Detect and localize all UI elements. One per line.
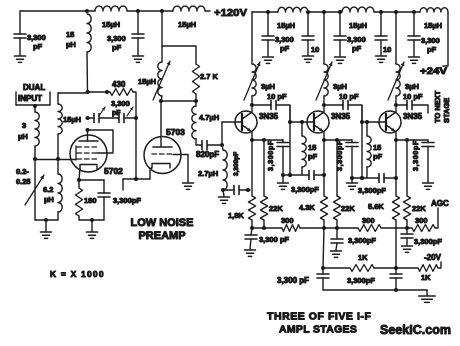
svg-text:820pF: 820pF — [196, 150, 219, 159]
inductor L5 15uH input — [58, 93, 62, 174]
svg-text:300: 300 — [281, 216, 294, 225]
svg-text:3,300: 3,300 — [107, 34, 126, 43]
tube U1 plate loop — [88, 130, 114, 153]
node k-1 — [77, 178, 81, 182]
svg-text:22K: 22K — [269, 204, 283, 213]
resistor R300-1 — [282, 225, 300, 232]
resistor 22K Q1 — [260, 140, 267, 228]
label U2 5703 — [166, 127, 185, 137]
node rail2-D — [338, 10, 342, 14]
svg-text:6.2: 6.2 — [43, 185, 53, 194]
wire emitter row Q2 — [324, 139, 352, 141]
wire row2b — [315, 174, 324, 176]
wire low to -20V — [438, 262, 441, 268]
node g2-2 — [194, 99, 198, 103]
svg-text:15µH: 15µH — [277, 21, 295, 30]
arrow C4 — [127, 107, 133, 116]
svg-text:15: 15 — [308, 143, 316, 152]
label L11 — [424, 21, 442, 30]
svg-text:5.6K: 5.6K — [368, 202, 384, 211]
label R1K-1 — [358, 253, 368, 262]
label +120V — [214, 7, 247, 19]
wire row3 — [352, 177, 379, 179]
wire to base Q3 — [349, 105, 362, 122]
svg-text:10: 10 — [311, 45, 319, 54]
resistor R1K-2 — [418, 265, 438, 272]
svg-text:3,300: 3,300 — [27, 33, 46, 42]
wire bus c — [381, 227, 412, 229]
inductor L3 15uH on rail — [173, 6, 205, 11]
label L9 — [277, 21, 295, 30]
tube U2 grid dashes — [152, 153, 172, 155]
label 15pF Q3 — [373, 143, 383, 161]
svg-text:15µH: 15µH — [102, 20, 120, 29]
label C1 — [27, 33, 46, 51]
node e22 Q2 — [335, 138, 339, 142]
inductor 2.7uH — [222, 145, 227, 190]
label L7 — [138, 77, 156, 86]
label +24V — [420, 66, 447, 76]
svg-text:1K: 1K — [358, 253, 368, 262]
node base Q3 — [360, 120, 364, 124]
wire bus agc — [435, 208, 438, 228]
resistor Re Q2 4.3K — [320, 140, 327, 228]
wire low bottom — [323, 289, 427, 291]
capacitor Cb1 3300pF — [245, 228, 257, 249]
label K=X1000 — [50, 269, 105, 279]
svg-text:3,300pF: 3,300pF — [358, 186, 386, 195]
svg-text:µH: µH — [18, 132, 28, 141]
node bus-5 — [405, 226, 409, 230]
svg-text:DUAL: DUAL — [23, 83, 45, 92]
svg-text:3,300pF: 3,300pF — [268, 140, 275, 171]
svg-text:4.3K: 4.3K — [299, 203, 315, 212]
label Re3 5.6K — [368, 202, 384, 211]
resistor Re Q1 1,8K — [248, 140, 255, 228]
node emitter Q1 — [250, 138, 254, 142]
svg-text:INPUT: INPUT — [18, 94, 42, 103]
capacitor C1 3300pF — [14, 34, 26, 55]
node rail2-C — [322, 10, 326, 14]
node e22 Q1 — [262, 138, 266, 142]
svg-text:1,8K: 1,8K — [228, 211, 244, 220]
svg-text:3,300: 3,300 — [275, 35, 294, 44]
node row2-b — [288, 173, 292, 177]
label THREE OF FIVE I-F — [267, 311, 371, 323]
label C3 C4 3300pF — [111, 99, 130, 117]
ground G6 — [263, 57, 274, 63]
transistor Q2 3N35 — [307, 105, 329, 140]
label U1 5702 — [104, 166, 123, 176]
svg-text:5702: 5702 — [104, 166, 123, 176]
ground em-bypass Q1 — [278, 183, 289, 189]
capacitor C11 3300pF — [408, 12, 420, 56]
inductor L9 15uH rail2 — [278, 7, 308, 12]
label R1 — [112, 80, 126, 89]
node 15pF top Q2 — [300, 120, 304, 124]
inductor L7 15uH variable — [158, 46, 162, 101]
label C5 — [113, 196, 141, 205]
ground G3 — [41, 220, 52, 238]
node row2-c — [322, 173, 326, 177]
label em-bypass Q3 — [413, 140, 420, 171]
svg-text:SeekIC.com: SeekIC.com — [380, 322, 451, 337]
label 3uH stage2 — [333, 82, 347, 91]
wire collector row Q1 — [252, 104, 271, 106]
svg-text:pF: pF — [308, 152, 318, 161]
node base-in Q1 — [220, 143, 224, 147]
svg-text:pF: pF — [112, 43, 122, 52]
node plate-1 — [86, 90, 90, 94]
resistor R1 430 — [110, 89, 133, 96]
node low-1 — [321, 266, 325, 270]
label C7 — [275, 35, 294, 53]
wire neut left — [88, 117, 95, 119]
svg-text:3,300 pF: 3,300 pF — [277, 276, 309, 285]
wire bus b — [300, 227, 358, 229]
ground G8 — [335, 57, 346, 63]
node row1 — [246, 188, 250, 192]
node low-2 — [394, 266, 398, 270]
svg-text:4.7µH: 4.7µH — [199, 113, 219, 122]
svg-text:300: 300 — [362, 216, 375, 225]
variable capacitor 0.2-0.25 — [25, 159, 44, 220]
label Q1 3N35 — [259, 112, 279, 121]
svg-text:3,300: 3,300 — [347, 35, 366, 44]
wire input bottom — [35, 219, 58, 221]
node base row Q2 — [288, 173, 292, 177]
svg-text:AGC: AGC — [431, 199, 449, 208]
wire collector row Q2 — [324, 104, 343, 106]
label AGC — [431, 199, 449, 208]
wire left drop — [19, 11, 21, 34]
svg-text:15: 15 — [373, 143, 381, 152]
capacitor C7 3300pF — [262, 12, 274, 56]
label 10pF stage2 — [339, 92, 359, 101]
svg-text:0.25: 0.25 — [16, 177, 31, 186]
svg-text:180: 180 — [84, 196, 97, 205]
svg-text:3,300pF: 3,300pF — [347, 276, 375, 285]
label C9 — [347, 35, 366, 53]
inductor L11 15uH rail2 — [420, 8, 448, 12]
node rail2-A — [266, 10, 270, 14]
wire collector row Q3 — [396, 104, 407, 106]
label 10pF stage3 — [403, 92, 423, 101]
svg-text:pF: pF — [427, 45, 437, 54]
wire 2.7K top corner — [162, 46, 196, 64]
label R300-1 — [281, 216, 294, 225]
inductor 3uH stage3 — [396, 64, 400, 105]
capacitor row3 3300pF — [379, 174, 384, 183]
svg-text:3,300 pF: 3,300 pF — [259, 235, 289, 244]
capacitor Cl1 3300pF — [317, 268, 329, 290]
svg-text:3µH: 3µH — [333, 82, 347, 91]
svg-text:TO NEXT: TO NEXT — [433, 90, 442, 123]
svg-text:3,300pF: 3,300pF — [233, 152, 240, 176]
node in-A — [33, 157, 37, 161]
label R300-2 — [362, 216, 375, 225]
label DUAL INPUT — [18, 83, 45, 103]
node in-B — [56, 157, 60, 161]
svg-text:1K: 1K — [421, 273, 431, 282]
node plate-2 — [105, 90, 109, 94]
label 22K-3 — [412, 204, 426, 213]
wire rail2 a — [252, 11, 278, 13]
capacitor C8 10 — [302, 12, 314, 55]
wire base Q1 — [222, 122, 235, 145]
capacitor C9 3300pF — [334, 12, 346, 56]
label Q2 3N35 — [331, 112, 351, 121]
label AMPL STAGES — [279, 324, 357, 336]
resistor Re Q3 5.6K — [392, 140, 399, 268]
label Q3 3N35 — [403, 112, 423, 121]
wire top rail1 dash — [205, 10, 210, 12]
wire 430 right corner — [133, 92, 136, 180]
label L3 — [178, 20, 196, 29]
ground G9 — [376, 56, 387, 62]
label L4 — [18, 121, 28, 141]
svg-text:15µH: 15µH — [349, 21, 367, 30]
node emitter Q3 — [394, 138, 398, 142]
node neut-R — [134, 116, 138, 120]
svg-text:3: 3 — [22, 121, 26, 130]
label C11 — [421, 36, 440, 54]
wire emitter row Q3 — [396, 139, 428, 141]
inductor-style 15pF Q3 — [367, 122, 371, 178]
node g2-1 — [159, 99, 163, 103]
inductor L10 15uH rail2 — [342, 7, 374, 12]
node collector Q3 — [394, 103, 398, 107]
tube U1 cathode — [79, 165, 97, 181]
node row3-a — [350, 176, 354, 180]
svg-text:10 pF: 10 pF — [403, 92, 423, 101]
node rail2-G — [412, 10, 416, 14]
capacitor 10pF stage3 — [407, 101, 412, 110]
node rail2-F — [394, 10, 398, 14]
label C10 — [383, 45, 391, 54]
capacitor C3 neut — [94, 114, 99, 123]
svg-text:15µH: 15µH — [424, 21, 442, 30]
wire emitter row Q1 — [252, 139, 283, 141]
svg-text:3µH: 3µH — [261, 82, 275, 91]
node collector Q1 — [250, 103, 254, 107]
resistor R3 2.7K — [192, 64, 199, 101]
label Cb1 — [259, 235, 289, 244]
wire k bottom — [79, 219, 104, 221]
svg-text:430: 430 — [112, 80, 126, 89]
wire row1 — [223, 189, 233, 191]
wire k top — [79, 179, 104, 181]
wire low drop1 — [323, 228, 324, 268]
svg-text:0.2-: 0.2- — [16, 167, 29, 176]
node base-bot Q1 — [221, 188, 225, 192]
capacitor C4 neut — [119, 114, 124, 123]
svg-text:STAGE: STAGE — [442, 98, 451, 123]
label R300-3 — [415, 216, 428, 225]
label R3 — [200, 72, 219, 81]
label 2.7uH — [198, 169, 218, 178]
arrow L7 — [153, 61, 170, 100]
wire low a — [323, 267, 350, 269]
wire bus a — [252, 227, 282, 229]
tube U1 plate — [79, 130, 98, 141]
wire row2 — [283, 174, 309, 176]
wire 820 left — [196, 144, 202, 146]
ground row1 — [219, 190, 230, 203]
label -20V — [424, 253, 442, 262]
wire rail drop stage3 — [395, 12, 397, 64]
wire input join — [35, 159, 58, 161]
ground G11 — [245, 250, 256, 256]
svg-text:µH: µH — [44, 195, 54, 204]
node emitter Q2 — [322, 138, 326, 142]
arrow 3uH stage2 — [316, 62, 332, 100]
wire plate row 5703 — [161, 100, 196, 102]
svg-text:5703: 5703 — [166, 127, 185, 137]
wire rail2 c — [374, 11, 420, 13]
label Re2 4.3K — [299, 203, 315, 212]
wire neut mid — [100, 117, 119, 119]
node row2-a — [281, 173, 285, 177]
wire low b — [374, 267, 418, 269]
svg-text:+24V: +24V — [420, 66, 447, 76]
svg-text:THREE OF FIVE I-F: THREE OF FIVE I-F — [267, 311, 371, 323]
ground G4 — [87, 220, 98, 238]
svg-text:3,300pF: 3,300pF — [348, 236, 376, 245]
svg-text:15µH: 15µH — [63, 115, 81, 124]
inductor 3uH stage2 — [324, 64, 328, 105]
svg-text:15µH: 15µH — [178, 20, 196, 29]
ground G12 — [331, 251, 342, 257]
wire 820 right — [208, 144, 222, 146]
node 15pF top Q3 — [365, 120, 369, 124]
inductor L4 3uH — [35, 106, 39, 159]
svg-text:3,300pF: 3,300pF — [291, 185, 319, 194]
svg-text:pF: pF — [280, 44, 290, 53]
arrow 3uH stage1 — [244, 62, 260, 100]
resistor 22K Q2 — [333, 140, 340, 228]
node fb — [134, 177, 138, 181]
ground G10 — [409, 57, 420, 63]
wire 430 left — [88, 91, 111, 93]
node bus-4 — [335, 226, 339, 230]
svg-text:-20V: -20V — [424, 253, 442, 262]
wire rail2 b — [308, 11, 342, 13]
tube U2 plate — [153, 101, 172, 147]
label LOW NOISE PREAMP — [131, 217, 194, 242]
node in-C — [44, 218, 48, 222]
wire row1b — [240, 189, 250, 191]
svg-text:10: 10 — [383, 45, 391, 54]
label L6 — [43, 185, 54, 204]
node rail2-B — [306, 10, 310, 14]
ground G7 — [303, 56, 314, 62]
input box — [16, 92, 50, 105]
inductor L6 6.2uH — [58, 174, 62, 220]
label L10 — [349, 21, 367, 30]
node e22 Q3 — [405, 138, 409, 142]
transistor Q3 3N35 — [379, 105, 401, 140]
inductor 3uH stage1 — [252, 64, 256, 105]
wire base Q2 — [290, 121, 307, 123]
tube U2 cathode — [150, 164, 170, 180]
svg-text:3,300pF: 3,300pF — [337, 140, 344, 171]
svg-text:AMPL STAGES: AMPL STAGES — [279, 324, 357, 336]
label L2 — [102, 20, 120, 29]
capacitor C5 3300pF — [98, 180, 110, 220]
capacitor em-bypass Q1 3300pF — [277, 140, 289, 183]
ground G14 — [419, 290, 436, 302]
label Cl1 — [277, 276, 309, 285]
capacitor em-bypass Q3 3300pF — [422, 140, 434, 183]
node rail1-C — [160, 9, 164, 13]
arrow 3uH stage3 — [388, 62, 404, 100]
label L5 — [63, 115, 81, 124]
capacitor row1 3300pF — [234, 186, 239, 195]
tube U2 grid return — [173, 155, 188, 184]
node bus-2 — [262, 226, 266, 230]
ground G1 — [15, 56, 26, 62]
capacitor Cb3 3300pF — [401, 228, 413, 245]
svg-text:300: 300 — [415, 216, 428, 225]
node collector Q2 — [322, 103, 326, 107]
svg-text:pF: pF — [352, 44, 362, 53]
wire top rail1 mid — [127, 10, 173, 12]
capacitor 10pF stage1 — [271, 101, 276, 110]
svg-text:22K: 22K — [341, 204, 355, 213]
node base row Q3 — [360, 176, 364, 180]
svg-text:10 pF: 10 pF — [339, 92, 359, 101]
label 3uH stage1 — [261, 82, 275, 91]
node low-3 — [394, 288, 398, 292]
resistor R300-2 — [358, 225, 381, 232]
wire base col Q2 — [289, 106, 291, 175]
label em-bypass Q2 — [337, 140, 344, 171]
capacitor em-bypass Q2 3300pF — [346, 140, 358, 183]
label 22K-1 — [269, 204, 283, 213]
svg-text:15: 15 — [66, 30, 74, 39]
node bus-3 — [322, 226, 326, 230]
label Cl2 — [347, 276, 375, 285]
svg-text:pF: pF — [373, 152, 383, 161]
wire drop to node C — [161, 11, 163, 46]
label 10pF stage1 — [267, 92, 287, 101]
tube U1 grid dashes — [76, 146, 97, 160]
inductor L8 4.7uH — [192, 101, 196, 145]
svg-text:pF: pF — [33, 42, 43, 51]
label L8 — [199, 113, 219, 122]
wire grid 5702 — [58, 159, 76, 161]
node row3-c — [394, 176, 398, 180]
wire neut right — [125, 117, 136, 119]
wire rail2 end — [443, 12, 448, 66]
capacitor Cl2 3300pF — [390, 268, 402, 290]
svg-text:3,300pF: 3,300pF — [113, 196, 141, 205]
svg-text:3µH: 3µH — [405, 82, 419, 91]
resistor R2 180 — [75, 180, 82, 220]
wire to next stage — [413, 105, 428, 113]
svg-text:3,300pF: 3,300pF — [413, 140, 420, 171]
svg-text:2.7µH: 2.7µH — [198, 169, 218, 178]
wire L5 top — [58, 92, 88, 94]
node rail2-E — [379, 10, 383, 14]
node rail1-B — [136, 9, 140, 13]
label C2 — [107, 34, 126, 52]
capacitor C2 3300pF — [132, 11, 144, 55]
arrow C3 — [99, 107, 105, 116]
svg-text:PREAMP: PREAMP — [138, 230, 185, 242]
resistor R300-3 — [412, 225, 435, 232]
